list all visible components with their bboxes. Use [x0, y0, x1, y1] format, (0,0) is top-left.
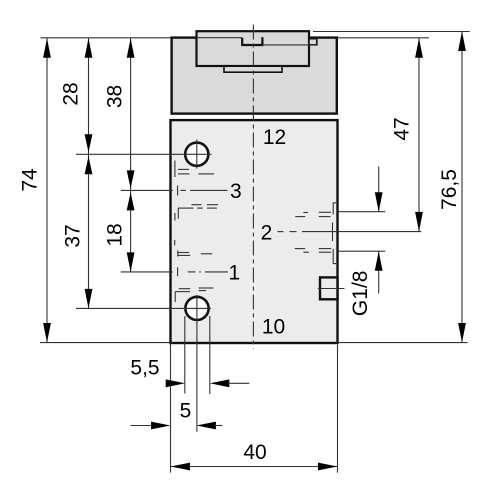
extension line top right cap (y38) [337, 37, 429, 39]
solenoid cap [172, 38, 337, 114]
dimension 5 line [131, 425, 153, 427]
hidden contour left group B (between 3 and 2) [175, 205, 218, 221]
extension line top right plate (y31.5) [313, 31, 470, 33]
svg-text:18: 18 [103, 223, 126, 246]
dimension 38/18 line [130, 38, 132, 272]
hole bottom right tangent ext [209, 316, 211, 394]
hidden contour left group A [175, 161, 214, 178]
main vertical centerline [252, 25, 254, 350]
svg-text:37: 37 [62, 224, 85, 247]
hole bottom left tangent ext [184, 316, 186, 394]
svg-text:38: 38 [103, 85, 126, 108]
svg-text:47: 47 [391, 117, 414, 140]
side port center line [318, 288, 345, 290]
svg-text:5: 5 [180, 400, 192, 423]
extension line top left (y38) [41, 37, 171, 39]
port 1 centerline [121, 271, 173, 273]
extension line bottom right (y342.5) [338, 342, 468, 344]
port 2 tick [332, 223, 334, 242]
svg-text:12: 12 [263, 126, 286, 149]
svg-text:28: 28 [60, 82, 83, 105]
extension verticals bottom [170, 344, 172, 473]
svg-text:1: 1 [229, 261, 241, 284]
dimension 76,5 line [461, 32, 463, 343]
G1/8 side port [320, 277, 338, 299]
svg-text:G1/8: G1/8 [349, 271, 372, 317]
cap top plate [197, 31, 310, 66]
plate right step [309, 39, 317, 45]
svg-text:3: 3 [230, 180, 242, 203]
port 3 tick [177, 186, 179, 196]
plate U-notch [242, 37, 262, 45]
mounting hole bottom [185, 297, 208, 320]
svg-text:2: 2 [261, 222, 273, 245]
mounting hole top [185, 143, 208, 166]
hidden contour left group D (below port 1) [175, 288, 213, 302]
hole top center line (ext for 28/37) [76, 153, 212, 155]
hidden contour left group C (between 2 and 1) [175, 240, 213, 257]
svg-text:5,5: 5,5 [130, 357, 159, 380]
dimension 5,5 line [166, 379, 186, 387]
dimension 74 line [46, 38, 48, 342]
port 1 tick [177, 267, 179, 276]
hole top crosshair vertical [196, 140, 198, 169]
svg-text:40: 40 [243, 441, 266, 464]
hole bottom vertical centerline ext [196, 295, 198, 432]
plate lower line [262, 44, 316, 46]
svg-text:10: 10 [262, 315, 285, 338]
port 3 centerline [121, 189, 173, 191]
plate inner line [197, 37, 243, 39]
extension lines G1/8 tangents [338, 211, 386, 213]
hidden contour right (port 2 cluster) [295, 202, 338, 264]
dimension 47 line [418, 38, 420, 231]
port 2 centerline [278, 231, 284, 233]
dimension 40 line [171, 466, 338, 468]
valve body [171, 120, 338, 343]
dimension G1/8 line [378, 167, 380, 212]
extension line bottom left (y342.5) [40, 342, 171, 344]
svg-text:74: 74 [18, 168, 41, 192]
cap bottom tongue [224, 66, 282, 72]
svg-text:76,5: 76,5 [438, 169, 461, 210]
hole bottom center line (ext for 37) [76, 307, 211, 309]
dimension 28/37 line [88, 38, 90, 308]
